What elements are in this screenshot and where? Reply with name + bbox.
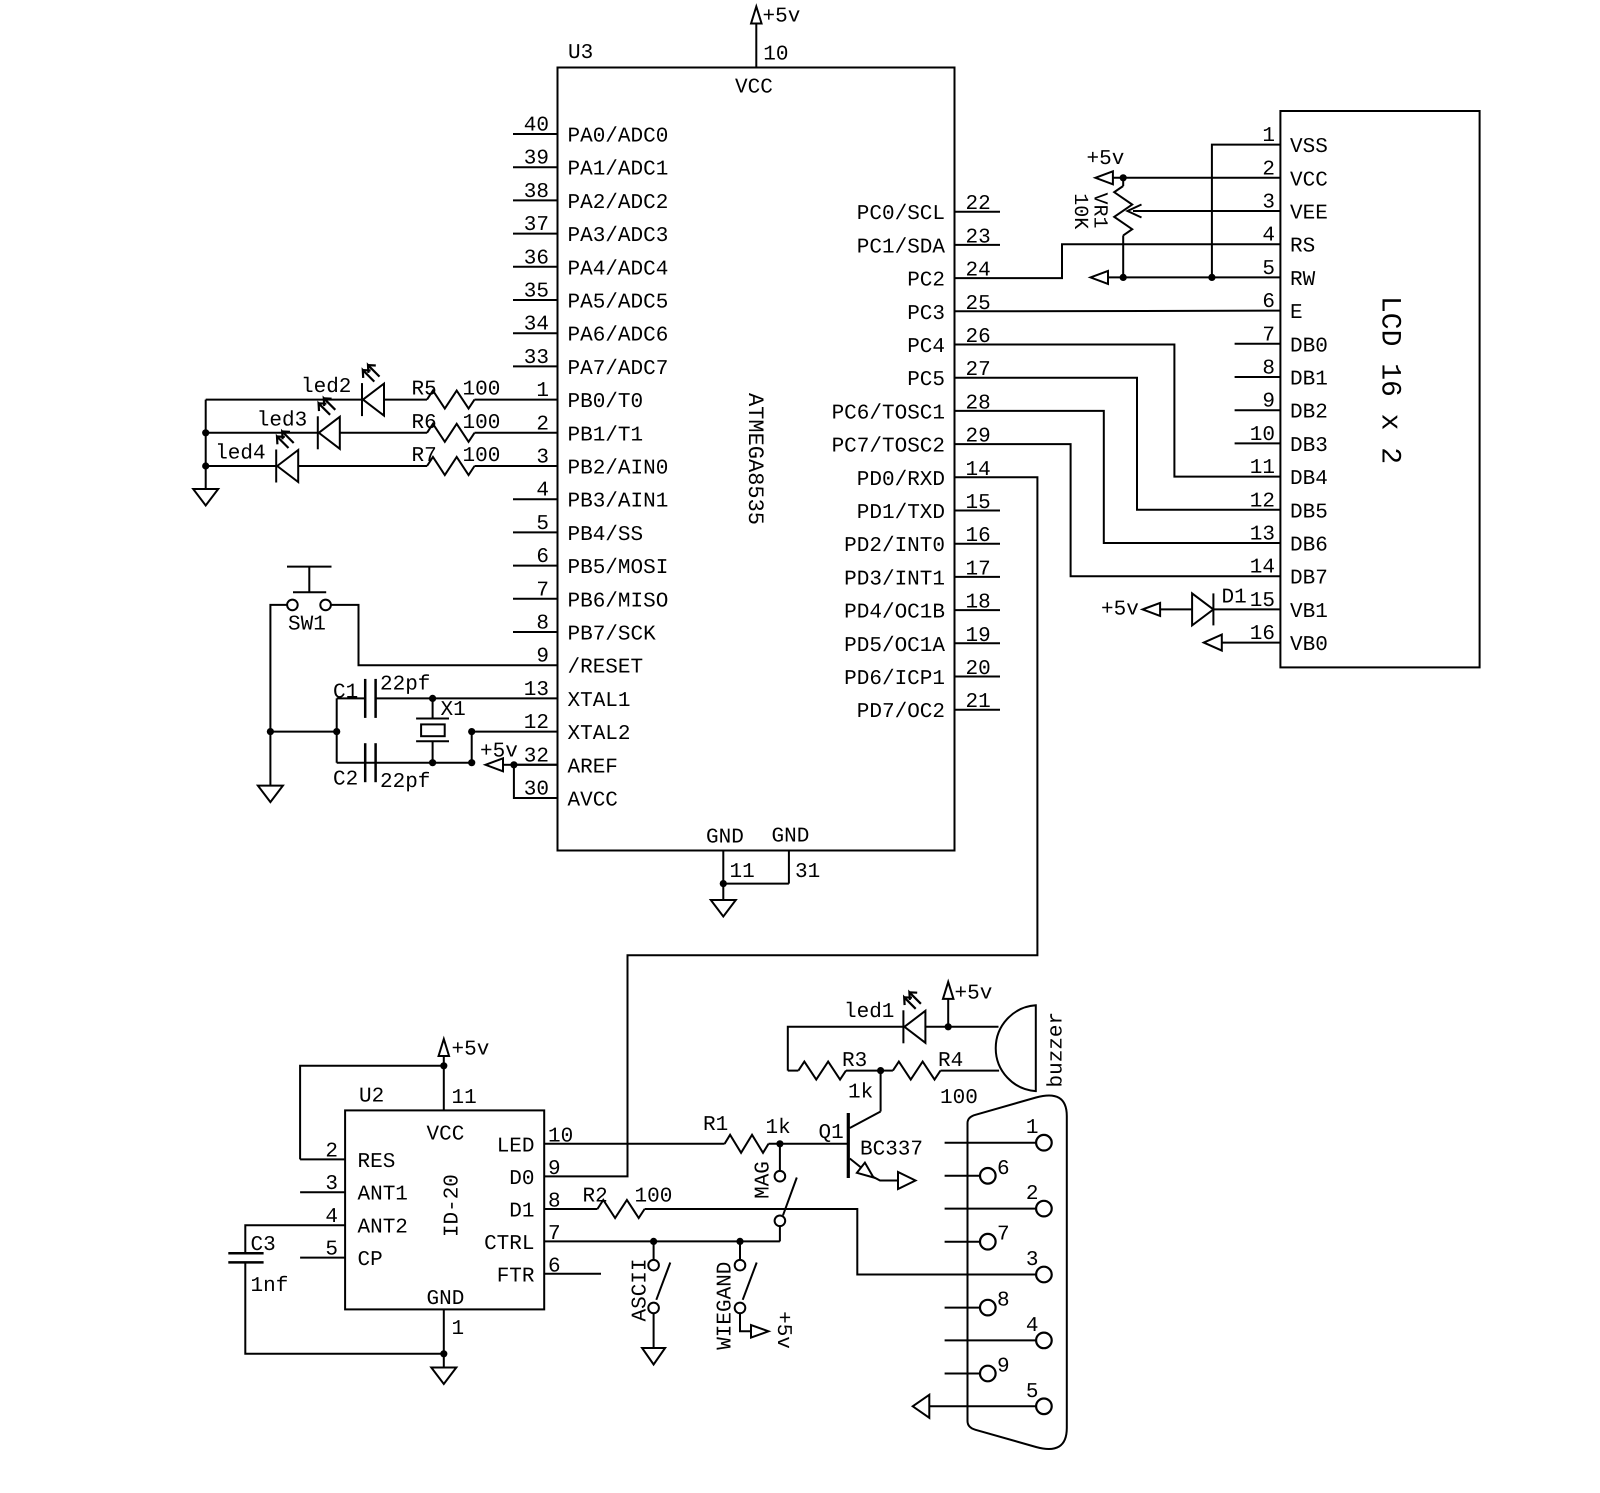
U3 pin 20 PD6/ICP1 bbox=[955, 676, 1001, 678]
svg-text:6: 6 bbox=[536, 546, 549, 569]
svg-text:PC4: PC4 bbox=[907, 336, 945, 359]
ground symbol (U3) bbox=[711, 900, 736, 917]
wire PC6 to LCD DB6 bbox=[1000, 411, 1280, 543]
svg-text:+5v: +5v bbox=[452, 1039, 490, 1062]
svg-text:PD0/RXD: PD0/RXD bbox=[857, 469, 945, 492]
wire U2 D1 to R2 bbox=[544, 1208, 597, 1210]
svg-text:VCC: VCC bbox=[1290, 169, 1328, 192]
U3 pin 40 PA0/ADC0 bbox=[513, 133, 558, 135]
svg-text:GND: GND bbox=[772, 826, 810, 849]
svg-text:PB3/AIN1: PB3/AIN1 bbox=[568, 491, 669, 514]
svg-text:4: 4 bbox=[536, 480, 549, 503]
svg-text:28: 28 bbox=[966, 392, 991, 415]
svg-text:PD1/TXD: PD1/TXD bbox=[857, 502, 945, 525]
svg-text:16: 16 bbox=[966, 525, 991, 548]
svg-text:23: 23 bbox=[966, 226, 991, 249]
U3 pin 25 PC3 bbox=[955, 310, 1001, 312]
DB9 pin 4 bbox=[945, 1339, 1036, 1341]
svg-text:5: 5 bbox=[536, 513, 549, 536]
svg-text:X1: X1 bbox=[441, 699, 466, 722]
svg-text:Q1: Q1 bbox=[819, 1122, 844, 1145]
svg-text:DB7: DB7 bbox=[1290, 568, 1328, 591]
svg-text:R1: R1 bbox=[703, 1114, 728, 1137]
LCD pin 10 DB3 bbox=[1235, 442, 1281, 444]
U3 pin 1 PB0/T0 bbox=[513, 399, 558, 401]
U3 pin 11 GND bbox=[722, 851, 724, 884]
wire LED cathode rail bbox=[205, 400, 207, 489]
U3 pin 6 PB5/MOSI bbox=[513, 565, 558, 567]
svg-text:3: 3 bbox=[1026, 1249, 1039, 1272]
capacitor C1 bbox=[364, 679, 367, 718]
svg-text:PA6/ADC6: PA6/ADC6 bbox=[568, 325, 669, 348]
U3 pin 39 PA1/ADC1 bbox=[513, 166, 558, 168]
wire PC3 to LCD E bbox=[1000, 310, 1280, 313]
svg-text:5: 5 bbox=[1026, 1381, 1039, 1404]
svg-text:PA3/ADC3: PA3/ADC3 bbox=[568, 225, 669, 248]
svg-text:10: 10 bbox=[763, 44, 788, 67]
svg-text:PC1/SDA: PC1/SDA bbox=[857, 236, 946, 259]
LCD module body bbox=[1280, 111, 1479, 667]
LCD pin 9 DB2 bbox=[1235, 409, 1281, 411]
ground arrow (DB9 pin 5) bbox=[913, 1395, 930, 1418]
LCD pin 7 DB0 bbox=[1235, 343, 1281, 345]
svg-text:4: 4 bbox=[1262, 225, 1275, 248]
svg-text:4: 4 bbox=[1026, 1315, 1039, 1338]
U2 pin 1 GND bbox=[443, 1309, 445, 1353]
U3 pin 2 PB1/T1 bbox=[513, 432, 558, 434]
svg-text:R7: R7 bbox=[412, 445, 437, 468]
svg-text:PB0/T0: PB0/T0 bbox=[568, 391, 644, 414]
ground symbol (ASCII) bbox=[642, 1348, 665, 1365]
svg-text:12: 12 bbox=[524, 712, 549, 735]
junction CTRL/ASCII bbox=[650, 1238, 657, 1245]
svg-text:PB4/SS: PB4/SS bbox=[568, 524, 644, 547]
svg-text:9: 9 bbox=[536, 646, 549, 669]
LED led4 bbox=[275, 450, 277, 483]
junction CTRL/WIEGAND bbox=[736, 1238, 743, 1245]
svg-text:LED: LED bbox=[497, 1135, 535, 1158]
ground symbol (U2) bbox=[431, 1368, 456, 1385]
LED led2 bbox=[361, 383, 363, 416]
DB9 pin 5 bbox=[929, 1405, 1036, 1407]
U3 pin 16 PD2/INT0 bbox=[955, 543, 1001, 545]
svg-text:PA4/ADC4: PA4/ADC4 bbox=[568, 258, 669, 281]
svg-text:PB6/MISO: PB6/MISO bbox=[568, 590, 669, 613]
svg-text:VCC: VCC bbox=[427, 1124, 465, 1147]
svg-text:SW1: SW1 bbox=[288, 614, 326, 637]
svg-text:13: 13 bbox=[1250, 524, 1275, 547]
wire SW1 left to ground rail bbox=[270, 605, 287, 732]
svg-text:/RESET: /RESET bbox=[568, 657, 644, 680]
VR1 wiper arrow / wire to LCD VEE bbox=[1133, 210, 1280, 212]
svg-text:PD3/INT1: PD3/INT1 bbox=[844, 568, 945, 591]
svg-text:7: 7 bbox=[997, 1224, 1010, 1247]
svg-text:21: 21 bbox=[966, 691, 991, 714]
svg-text:PA2/ADC2: PA2/ADC2 bbox=[568, 192, 669, 215]
svg-text:DB1: DB1 bbox=[1290, 369, 1328, 392]
wire PC2 to LCD RS bbox=[1000, 244, 1280, 278]
wire led4 to R7 bbox=[298, 465, 427, 467]
svg-text:PB2/AIN0: PB2/AIN0 bbox=[568, 458, 669, 481]
svg-text:19: 19 bbox=[966, 625, 991, 648]
svg-text:7: 7 bbox=[1262, 324, 1275, 347]
wire C2 to XTAL2 junction bbox=[433, 762, 472, 764]
+5v supply arrow (LCD VCC) bbox=[1095, 171, 1113, 184]
svg-text:18: 18 bbox=[966, 592, 991, 615]
svg-text:LCD 16 x 2: LCD 16 x 2 bbox=[1374, 296, 1405, 464]
U3 pin 17 PD3/INT1 bbox=[955, 576, 1001, 578]
svg-text:1k: 1k bbox=[766, 1117, 791, 1140]
svg-text:XTAL2: XTAL2 bbox=[568, 723, 631, 746]
+5v arrow (AREF) bbox=[486, 758, 504, 771]
wire R5 to U3 bbox=[475, 399, 514, 401]
+5v supply symbol (led1/buzzer) bbox=[943, 982, 954, 999]
svg-text:PB7/SCK: PB7/SCK bbox=[568, 624, 657, 647]
wire C-rail vertical bbox=[336, 698, 338, 762]
svg-text:27: 27 bbox=[966, 359, 991, 382]
svg-text:D1: D1 bbox=[509, 1201, 534, 1224]
U3 pin 14 PD0/RXD bbox=[955, 476, 1001, 478]
svg-text:VSS: VSS bbox=[1290, 136, 1328, 159]
svg-text:3: 3 bbox=[1262, 192, 1275, 215]
svg-text:VCC: VCC bbox=[735, 77, 773, 100]
Q1 emitter ground arrow bbox=[898, 1172, 916, 1189]
wire XTAL2 row bbox=[472, 732, 513, 763]
transistor Q1 BC337 bbox=[847, 1113, 850, 1178]
U3 pin 26 PC4 bbox=[955, 344, 1001, 346]
svg-text:1: 1 bbox=[536, 380, 549, 403]
junction R1 / MAG bbox=[776, 1140, 783, 1147]
wire R1 to Q1 base bbox=[769, 1143, 848, 1145]
U3 pin 19 PD5/OC1A bbox=[955, 642, 1001, 644]
wire led3 to R6 bbox=[340, 432, 427, 434]
svg-text:6: 6 bbox=[997, 1158, 1010, 1181]
svg-text:8: 8 bbox=[536, 613, 549, 636]
svg-text:U3: U3 bbox=[568, 42, 593, 65]
svg-text:9: 9 bbox=[1262, 391, 1275, 414]
capacitor C2 bbox=[364, 743, 367, 782]
svg-text:PD2/INT0: PD2/INT0 bbox=[844, 535, 945, 558]
svg-text:FTR: FTR bbox=[497, 1265, 535, 1288]
U2 pin 2 RES bbox=[300, 1158, 345, 1160]
wire C1 left to rail bbox=[337, 697, 366, 699]
wire rail down to ground bbox=[269, 732, 271, 786]
svg-text:led3: led3 bbox=[257, 409, 307, 432]
DB9 pin 9 bbox=[945, 1373, 980, 1375]
wire C-rail to SW1 rail bbox=[270, 731, 336, 733]
svg-text:2: 2 bbox=[1026, 1183, 1039, 1206]
resistor R3 bbox=[788, 1070, 799, 1072]
svg-text:RW: RW bbox=[1290, 269, 1316, 292]
svg-text:8: 8 bbox=[548, 1191, 561, 1214]
svg-text:7: 7 bbox=[536, 579, 549, 602]
svg-text:100: 100 bbox=[463, 379, 501, 402]
svg-text:PD6/ICP1: PD6/ICP1 bbox=[844, 668, 945, 691]
DB9 pin 2 bbox=[945, 1208, 1036, 1210]
U2 pin 3 ANT1 bbox=[300, 1191, 345, 1193]
svg-text:led1: led1 bbox=[844, 1001, 894, 1024]
svg-text:100: 100 bbox=[940, 1087, 978, 1110]
ground arrow (VB0) bbox=[1204, 635, 1222, 651]
U3 pin 38 PA2/ADC2 bbox=[513, 199, 558, 201]
svg-text:RS: RS bbox=[1290, 236, 1315, 259]
U3 pin 36 PA4/ADC4 bbox=[513, 266, 558, 268]
svg-text:led2: led2 bbox=[301, 376, 351, 399]
svg-text:PD7/OC2: PD7/OC2 bbox=[857, 701, 945, 724]
svg-text:40: 40 bbox=[524, 115, 549, 138]
svg-text:PB5/MOSI: PB5/MOSI bbox=[568, 557, 669, 580]
svg-text:BC337: BC337 bbox=[860, 1139, 923, 1162]
svg-text:DB5: DB5 bbox=[1290, 501, 1328, 524]
junction AREF/AVCC bbox=[510, 761, 517, 768]
DB9 pin 6 bbox=[945, 1175, 980, 1177]
resistor R1 bbox=[725, 1135, 769, 1153]
U3 pin 22 PC0/SCL bbox=[955, 211, 1001, 213]
junction U2 GND bbox=[440, 1350, 447, 1357]
svg-text:+5v: +5v bbox=[955, 983, 993, 1006]
svg-text:PD5/OC1A: PD5/OC1A bbox=[844, 635, 945, 658]
wire PD0 to U2 D0 (long net) bbox=[544, 477, 1037, 1176]
svg-text:buzzer: buzzer bbox=[1046, 1012, 1069, 1088]
junction U2 VCC / RES loop bbox=[440, 1062, 447, 1069]
svg-text:+5v: +5v bbox=[1087, 148, 1125, 171]
U3 pin 5 PB4/SS bbox=[513, 531, 558, 533]
svg-text:AREF: AREF bbox=[568, 756, 618, 779]
U2 pin 6 FTR bbox=[544, 1273, 601, 1275]
wire rail to led4 bbox=[206, 465, 277, 467]
junction +5v/led1/buzzer bbox=[945, 1023, 952, 1030]
svg-text:11: 11 bbox=[452, 1087, 477, 1110]
junction rail/led3 bbox=[202, 429, 209, 436]
capacitor C3 bbox=[228, 1252, 263, 1255]
wire D1 to +5v bbox=[1160, 608, 1192, 610]
svg-text:1: 1 bbox=[452, 1318, 465, 1341]
svg-text:17: 17 bbox=[966, 558, 991, 581]
wire RW net bbox=[1109, 276, 1281, 278]
U3 pin 12 XTAL2 bbox=[513, 731, 558, 733]
diode D1 (LCD backlight) bbox=[1213, 608, 1280, 610]
svg-text:2: 2 bbox=[536, 413, 549, 436]
svg-text:37: 37 bbox=[524, 214, 549, 237]
junction rail/led4 bbox=[202, 462, 209, 469]
LED led1 bbox=[902, 1010, 904, 1043]
svg-text:D0: D0 bbox=[509, 1168, 534, 1191]
svg-text:R4: R4 bbox=[938, 1050, 963, 1073]
U3 pin 31 GND bbox=[788, 851, 790, 884]
svg-text:33: 33 bbox=[524, 347, 549, 370]
switch ASCII bbox=[653, 1241, 655, 1260]
svg-text:ANT1: ANT1 bbox=[358, 1184, 408, 1207]
svg-text:+5v: +5v bbox=[771, 1311, 794, 1349]
svg-text:DB4: DB4 bbox=[1290, 468, 1328, 491]
svg-text:PA7/ADC7: PA7/ADC7 bbox=[568, 358, 669, 381]
junction XTAL2 drop bbox=[468, 759, 475, 766]
svg-text:6: 6 bbox=[1262, 291, 1275, 314]
ground arrow (LCD RW) bbox=[1091, 271, 1109, 284]
U3 pin 8 PB7/SCK bbox=[513, 631, 558, 633]
wire U2 RES to VCC bbox=[300, 1066, 444, 1160]
U3 pin 24 PC2 bbox=[955, 277, 1001, 279]
wire PC4 to LCD DB4 bbox=[1000, 345, 1280, 477]
connector DB9 outline bbox=[968, 1095, 1067, 1449]
svg-text:GND: GND bbox=[427, 1288, 465, 1311]
svg-text:+5v: +5v bbox=[480, 741, 518, 764]
svg-text:100: 100 bbox=[463, 412, 501, 435]
junction VR1 top bbox=[1120, 174, 1127, 181]
wire R7 to U3 bbox=[475, 465, 514, 467]
svg-text:VEE: VEE bbox=[1290, 203, 1328, 226]
wire rail to led3 bbox=[206, 432, 318, 434]
svg-text:PC7/TOSC2: PC7/TOSC2 bbox=[832, 436, 945, 459]
DB9 pin 1 bbox=[945, 1142, 1036, 1144]
svg-text:DB2: DB2 bbox=[1290, 402, 1328, 425]
junction C2 / X1 bbox=[429, 759, 436, 766]
svg-text:RES: RES bbox=[358, 1151, 396, 1174]
U3 pin 15 PD1/TXD bbox=[955, 510, 1001, 512]
wire U2 CTRL row bbox=[544, 1240, 780, 1242]
svg-text:26: 26 bbox=[966, 326, 991, 349]
DB9 pin 7 bbox=[945, 1241, 980, 1243]
svg-text:24: 24 bbox=[966, 260, 991, 283]
wire XTAL1 row bbox=[377, 697, 514, 699]
svg-text:ATMEGA8535: ATMEGA8535 bbox=[742, 393, 767, 525]
U3 pin 18 PD4/OC1B bbox=[955, 609, 1001, 611]
junction XTAL1 / X1 bbox=[429, 695, 436, 702]
svg-text:AVCC: AVCC bbox=[568, 790, 618, 813]
svg-text:3: 3 bbox=[325, 1173, 338, 1196]
wire led1 branch vertical bbox=[788, 1027, 904, 1071]
IC U3 ATMEGA8535 body bbox=[558, 68, 955, 851]
resistor R7 bbox=[427, 457, 475, 475]
svg-text:XTAL1: XTAL1 bbox=[568, 690, 631, 713]
U3 pin 30 AVCC bbox=[513, 797, 558, 799]
svg-text:20: 20 bbox=[966, 658, 991, 681]
svg-text:31: 31 bbox=[795, 861, 820, 884]
+5v arrow (VB1) bbox=[1143, 603, 1161, 616]
svg-text:ANT2: ANT2 bbox=[358, 1217, 408, 1240]
svg-text:1k: 1k bbox=[848, 1082, 873, 1105]
svg-text:2: 2 bbox=[1262, 158, 1275, 181]
svg-text:8: 8 bbox=[997, 1290, 1010, 1313]
resistor R5 bbox=[427, 391, 475, 409]
svg-text:22pf: 22pf bbox=[380, 771, 430, 794]
svg-text:PA0/ADC0: PA0/ADC0 bbox=[568, 126, 669, 149]
svg-text:CP: CP bbox=[358, 1249, 383, 1272]
svg-text:+5v: +5v bbox=[763, 6, 801, 29]
svg-text:VB0: VB0 bbox=[1290, 634, 1328, 657]
U3 pin 32 AREF bbox=[513, 764, 558, 766]
svg-text:PC5: PC5 bbox=[907, 369, 945, 392]
svg-text:100: 100 bbox=[635, 1186, 673, 1209]
svg-text:E: E bbox=[1290, 302, 1303, 325]
svg-text:R2: R2 bbox=[583, 1186, 608, 1209]
svg-text:3: 3 bbox=[536, 447, 549, 470]
U3 pin 33 PA7/ADC7 bbox=[513, 365, 558, 367]
DB9 pin 8 bbox=[945, 1307, 980, 1309]
crystal X1 bbox=[432, 698, 434, 718]
junction VSS/RW bbox=[1208, 274, 1215, 281]
svg-text:22: 22 bbox=[966, 193, 991, 216]
svg-text:1nf: 1nf bbox=[251, 1275, 289, 1298]
svg-text:R3: R3 bbox=[842, 1050, 867, 1073]
wire node to buzzer bbox=[948, 1026, 998, 1028]
U3 pin 21 PD7/OC2 bbox=[955, 709, 1001, 711]
wire +5v to LCD VCC bbox=[1113, 177, 1280, 179]
wire U2 LED to R1 bbox=[544, 1143, 724, 1145]
wire AVCC loop bbox=[514, 765, 558, 798]
junction U3 GND pins bbox=[720, 880, 727, 887]
svg-text:C3: C3 bbox=[251, 1234, 276, 1257]
DB9 pin 3 bbox=[1036, 1267, 1052, 1283]
svg-text:34: 34 bbox=[524, 314, 549, 337]
svg-text:14: 14 bbox=[966, 459, 991, 482]
svg-text:GND: GND bbox=[706, 827, 744, 850]
svg-text:+5v: +5v bbox=[1101, 599, 1139, 622]
junction VR1 bottom / RW net bbox=[1120, 274, 1127, 281]
svg-text:11: 11 bbox=[1250, 457, 1275, 480]
svg-text:6: 6 bbox=[548, 1255, 561, 1278]
svg-text:DB0: DB0 bbox=[1290, 335, 1328, 358]
ground symbol (SW1) bbox=[258, 786, 283, 803]
+5v supply symbol (U2 VCC) bbox=[439, 1039, 450, 1056]
junction C-rail / SW1 rail bbox=[333, 728, 340, 735]
U3 pin 34 PA6/ADC6 bbox=[513, 332, 558, 334]
svg-text:VB1: VB1 bbox=[1290, 601, 1328, 624]
U3 pin 27 PC5 bbox=[955, 377, 1001, 379]
junction SW1 rail / C-rail bbox=[267, 728, 274, 735]
ground symbol (LED rail) bbox=[193, 489, 218, 506]
switch MAG bbox=[779, 1144, 781, 1171]
wire PC7 to LCD DB7 bbox=[1000, 444, 1280, 576]
svg-text:5: 5 bbox=[325, 1239, 338, 1262]
svg-text:PA1/ADC1: PA1/ADC1 bbox=[568, 159, 669, 182]
wire LCD VSS to RW net bbox=[1212, 145, 1281, 278]
junction R3/R4/Q1 collector bbox=[877, 1067, 884, 1074]
svg-text:35: 35 bbox=[524, 281, 549, 304]
wire +5v arrow stem bbox=[947, 999, 949, 1027]
wire PC5 to LCD DB5 bbox=[1000, 378, 1280, 510]
switch WIEGAND bbox=[739, 1241, 741, 1260]
svg-text:36: 36 bbox=[524, 247, 549, 270]
wire +5v to U3 VCC pin 10 bbox=[755, 24, 757, 68]
svg-text:39: 39 bbox=[524, 148, 549, 171]
svg-text:1: 1 bbox=[1026, 1117, 1039, 1140]
svg-text:12: 12 bbox=[1250, 490, 1275, 513]
svg-text:PC3: PC3 bbox=[907, 303, 945, 326]
svg-text:15: 15 bbox=[966, 492, 991, 515]
svg-text:9: 9 bbox=[548, 1158, 561, 1181]
svg-text:C2: C2 bbox=[333, 769, 358, 792]
resistor R6 bbox=[427, 424, 475, 442]
wire U3 GND to ground bbox=[722, 884, 724, 900]
svg-text:25: 25 bbox=[966, 293, 991, 316]
svg-text:R5: R5 bbox=[412, 379, 437, 402]
wire rail to led2 bbox=[206, 399, 362, 401]
U3 pin 7 PB6/MISO bbox=[513, 598, 558, 600]
U3 pin 3 PB2/AIN0 bbox=[513, 465, 558, 467]
U3 pin 23 PC1/SDA bbox=[955, 244, 1001, 246]
wire +5v to AREF bbox=[503, 764, 513, 766]
IC U2 ID-20 body bbox=[345, 1110, 544, 1309]
resistor R2 bbox=[597, 1200, 644, 1218]
U3 pin 13 XTAL1 bbox=[513, 697, 558, 699]
U2 pin 5 CP bbox=[300, 1257, 345, 1259]
wire C2 row bbox=[337, 762, 433, 764]
wire U2 GND to ground bbox=[443, 1354, 445, 1368]
svg-text:ID-20: ID-20 bbox=[442, 1174, 465, 1237]
U3 pin 37 PA3/ADC3 bbox=[513, 233, 558, 235]
+5v supply symbol (U3 VCC) bbox=[751, 7, 762, 24]
